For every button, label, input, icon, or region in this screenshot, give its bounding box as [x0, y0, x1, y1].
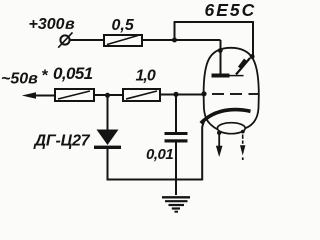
svg-text:0,051: 0,051	[53, 64, 93, 83]
svg-text:*: *	[41, 68, 48, 85]
svg-text:~50в: ~50в	[1, 71, 38, 88]
svg-text:1,0: 1,0	[136, 68, 156, 85]
svg-text:0,01: 0,01	[146, 146, 173, 163]
svg-text:+300: +300	[29, 16, 65, 33]
svg-text:в: в	[65, 16, 75, 33]
svg-text:6Е5С: 6Е5С	[205, 0, 257, 20]
svg-text:0,5: 0,5	[112, 17, 135, 34]
svg-text:ДГ-Ц27: ДГ-Ц27	[33, 132, 91, 149]
